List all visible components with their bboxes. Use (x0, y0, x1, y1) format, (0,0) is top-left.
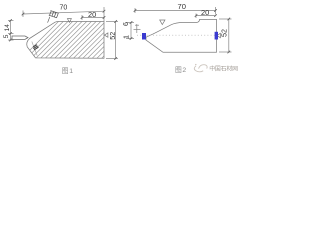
svg-text:20: 20 (201, 8, 209, 17)
svg-text:图1: 图1 (62, 67, 74, 75)
svg-text:中国石材网: 中国石材网 (209, 64, 238, 72)
svg-text:20: 20 (88, 10, 96, 19)
svg-text:5: 5 (3, 34, 10, 38)
svg-text:1: 1 (122, 35, 131, 39)
svg-text:14: 14 (4, 24, 11, 32)
svg-text:52: 52 (108, 32, 117, 40)
svg-text:70: 70 (178, 2, 186, 11)
svg-text:70: 70 (60, 4, 68, 11)
svg-text:图2: 图2 (175, 66, 187, 74)
svg-text:6: 6 (121, 22, 130, 26)
